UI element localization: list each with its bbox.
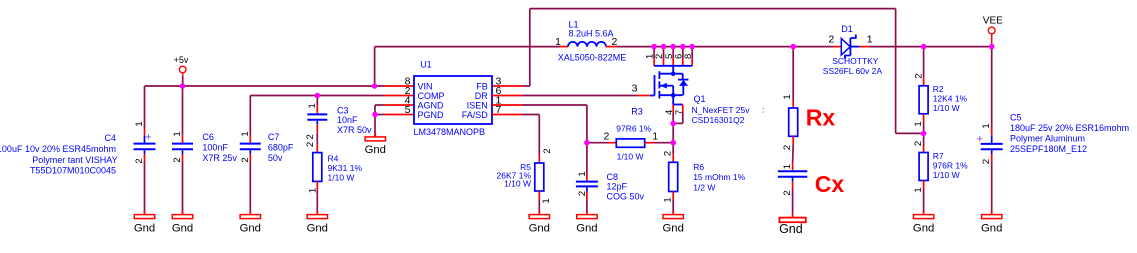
svg-text:2: 2 [913, 73, 924, 78]
svg-text:2: 2 [172, 157, 183, 162]
svg-text:Gnd: Gnd [240, 222, 261, 234]
svg-text:25SEPF180M_E12: 25SEPF180M_E12 [1010, 144, 1087, 154]
svg-text:C4: C4 [104, 133, 116, 143]
svg-text:C3: C3 [337, 106, 349, 116]
svg-text:1: 1 [541, 198, 552, 203]
inductor L1 [568, 42, 606, 47]
svg-text:1: 1 [134, 121, 145, 126]
wire R2 bottom [923, 114, 925, 122]
wire L1 pin2 stub [606, 46, 617, 48]
svg-text:100uF 10v 20% ESR45mohm: 100uF 10v 20% ESR45mohm [0, 144, 116, 154]
svg-text:SCHOTTKY: SCHOTTKY [832, 56, 879, 66]
resistor R4 [313, 153, 322, 182]
svg-text:Polymer Aluminum: Polymer Aluminum [1010, 134, 1085, 144]
ground R5 [538, 211, 540, 215]
svg-text:R3: R3 [631, 107, 643, 117]
ground R6 [672, 211, 674, 215]
svg-text:2: 2 [612, 36, 618, 48]
node Q1 drain junctions [651, 44, 657, 50]
wire main top net (switch node) [375, 46, 560, 48]
ground C6 [182, 211, 184, 215]
capacitor C6 [172, 143, 193, 145]
wire R7 top [923, 133, 925, 144]
svg-text:VIN: VIN [418, 82, 433, 92]
svg-text:100nF: 100nF [202, 143, 228, 153]
svg-text:1: 1 [555, 36, 561, 48]
svg-text:Q1: Q1 [694, 94, 706, 104]
wire C5 to gnd [991, 150, 993, 154]
svg-text:Gnd: Gnd [913, 222, 934, 234]
svg-text:1: 1 [307, 103, 318, 108]
svg-text:2: 2 [604, 130, 610, 142]
wire vertical main to VIN pin [374, 47, 376, 86]
svg-text:97R6 1%: 97R6 1% [616, 124, 651, 134]
wire D1 cathode stub [859, 46, 869, 48]
svg-text:D1: D1 [841, 24, 853, 34]
wire Rx drop [792, 47, 794, 100]
svg-text::: : [762, 105, 764, 115]
svg-text:R7: R7 [933, 151, 944, 161]
svg-text:Gnd: Gnd [981, 222, 1002, 234]
node Rx junction [790, 44, 796, 50]
svg-text:1: 1 [307, 188, 318, 193]
svg-text:DR: DR [475, 91, 488, 101]
svg-text:2: 2 [240, 157, 251, 162]
wire C3 to R4 [316, 121, 318, 125]
svg-text:2: 2 [305, 142, 316, 147]
wire feedback right riser [895, 9, 897, 134]
wire Q1 drain pin stubs [653, 47, 655, 58]
svg-text:2: 2 [577, 191, 588, 196]
node R2 top junction [921, 44, 927, 50]
svg-text:C7: C7 [268, 132, 280, 142]
svg-text:1: 1 [652, 130, 658, 142]
wire C8 drop [586, 143, 588, 174]
node PGND junction [372, 112, 378, 118]
resistor R2 [919, 86, 928, 114]
svg-text:3: 3 [632, 82, 638, 94]
wire C6 to gnd [182, 150, 184, 154]
wire C3 drop [316, 96, 318, 106]
wire R3 left [587, 142, 608, 144]
svg-text:1: 1 [577, 171, 588, 176]
wire PGND stub [375, 114, 385, 116]
svg-text:2: 2 [782, 190, 793, 195]
svg-text:180uF 25v 20% ESR16mohm: 180uF 25v 20% ESR16mohm [1010, 123, 1129, 133]
svg-text:1/10 W: 1/10 W [617, 151, 644, 161]
capacitor C7 [240, 143, 261, 145]
node R2/R7 feedback junction [921, 131, 927, 137]
svg-text:X7R 50v: X7R 50v [337, 125, 372, 135]
wire R6 bottom [672, 192, 674, 200]
wire R7 bottom [923, 181, 925, 189]
svg-text:U1: U1 [420, 60, 432, 70]
node C3 junction [315, 93, 321, 99]
svg-text:2: 2 [913, 141, 924, 146]
svg-text:1/10 W: 1/10 W [328, 173, 355, 183]
wire C8 to gnd [586, 187, 588, 192]
wire D1 anode stub [833, 46, 841, 48]
transistor Q1 N-channel MOSFET [654, 65, 692, 67]
wire ISEN net [492, 104, 522, 106]
ground C8 [586, 211, 588, 215]
wire +5v stem [182, 73, 184, 76]
svg-text:+: + [145, 132, 151, 144]
svg-text:1: 1 [172, 131, 183, 136]
svg-text:1/10 W: 1/10 W [933, 103, 960, 113]
wire C7 to gnd [249, 150, 251, 154]
node +5v junction [180, 83, 186, 89]
svg-text:XAL5050-822ME: XAL5050-822ME [558, 52, 627, 62]
svg-text:Gnd: Gnd [172, 222, 193, 234]
svg-text:T55D107M010C0045: T55D107M010C0045 [30, 165, 116, 175]
svg-text:8: 8 [683, 54, 694, 59]
svg-text:5: 5 [405, 104, 411, 116]
ground C5 [991, 211, 993, 215]
capacitor Cx [778, 170, 807, 172]
node VEE junction [989, 44, 995, 50]
svg-text:1: 1 [240, 131, 251, 136]
wire FA/SD to R5 [492, 114, 522, 116]
wire COMP rail y=95.5 [250, 95, 385, 97]
svg-text:1: 1 [782, 94, 793, 99]
wire Q1 source to R3/R6 [672, 123, 674, 142]
wire D1 to VEE [869, 46, 992, 48]
svg-text:1: 1 [662, 197, 673, 202]
svg-text:2: 2 [542, 148, 553, 153]
svg-text:7: 7 [674, 110, 685, 115]
svg-text:ISEN: ISEN [467, 101, 488, 111]
wire C5 drop [991, 47, 993, 128]
svg-text:8.2uH 5.6A: 8.2uH 5.6A [569, 29, 614, 39]
svg-text:15 mOhm 1%: 15 mOhm 1% [693, 172, 745, 182]
svg-text:1: 1 [913, 187, 924, 192]
svg-text:2: 2 [782, 145, 793, 150]
wire R4 to gnd [316, 181, 318, 189]
resistor R3 [616, 139, 644, 147]
wire L1 pin1 stub [560, 46, 568, 48]
wire C7 drop [249, 96, 251, 136]
node R3/R6 junction [670, 140, 676, 146]
node ISEN/R3/C8 junction [584, 140, 590, 146]
svg-text:2: 2 [981, 159, 992, 164]
svg-text:R6: R6 [693, 162, 704, 172]
svg-text:R2: R2 [933, 84, 944, 94]
svg-text:AGND: AGND [418, 101, 445, 111]
wire DR to gate [492, 95, 522, 97]
svg-text:N_NexFET 25v: N_NexFET 25v [692, 105, 751, 115]
svg-text:FB: FB [476, 82, 488, 92]
svg-text:9K31 1%: 9K31 1% [328, 163, 363, 173]
svg-text:PGND: PGND [418, 110, 445, 120]
capacitor C5 [981, 143, 1003, 145]
svg-text:2: 2 [305, 134, 316, 139]
svg-text:Cx: Cx [815, 171, 845, 197]
svg-text:Gnd: Gnd [365, 144, 386, 156]
wire VEE stem [991, 34, 993, 47]
wire R5 bottom [538, 191, 540, 199]
node Q1 source junction [670, 121, 676, 127]
svg-text:X7R 25v: X7R 25v [202, 153, 237, 163]
wire U1 gnd drop [374, 115, 376, 138]
svg-text:1: 1 [782, 164, 793, 169]
wire R6 top [672, 143, 674, 155]
op-amp U1 LM3478 box [414, 76, 492, 124]
capacitor C8 [576, 181, 598, 183]
ground Cx [792, 214, 794, 218]
svg-text:Gnd: Gnd [663, 222, 684, 234]
wire C4 to gnd [144, 150, 146, 154]
diode D1 schottky [841, 39, 850, 56]
wire FB riser [529, 9, 531, 86]
svg-text:COG 50v: COG 50v [607, 191, 645, 201]
svg-text:+: + [977, 133, 983, 145]
resistor R7 [919, 153, 928, 181]
svg-text:Gnd: Gnd [134, 222, 155, 234]
svg-text:C8: C8 [607, 172, 619, 182]
capacitor C3 [307, 113, 327, 115]
wire Q1 source pin stubs [672, 105, 674, 113]
ground R4 [316, 211, 318, 215]
svg-text:12pF: 12pF [607, 182, 628, 192]
svg-text:1: 1 [867, 34, 873, 46]
svg-text:1: 1 [913, 121, 924, 126]
svg-text:Gnd: Gnd [307, 222, 328, 234]
svg-text:50v: 50v [268, 153, 283, 163]
wire L1 to diode [617, 46, 833, 48]
ground R7 [923, 211, 925, 215]
svg-text:1/2 W: 1/2 W [693, 183, 715, 193]
svg-text:+5v: +5v [174, 55, 189, 65]
wire +5v rail (VIN rail y=86) [145, 85, 386, 87]
resistor R5 [535, 163, 544, 191]
svg-text:LM3478MANOPB: LM3478MANOPB [414, 127, 486, 137]
wire Cx to gnd [792, 178, 794, 182]
svg-text:1: 1 [981, 123, 992, 128]
svg-text:Polymer tant VISHAY: Polymer tant VISHAY [32, 155, 117, 165]
ground C4 [144, 211, 146, 215]
ground U1 [374, 133, 376, 137]
capacitor C4 [134, 143, 156, 145]
wire VIN red pin stub [385, 85, 414, 87]
wire Rx to Cx [792, 136, 794, 144]
svg-text:2: 2 [828, 34, 834, 46]
wire vertical C4 drop [144, 86, 146, 128]
wire top feedback net [530, 8, 896, 10]
svg-text:Rx: Rx [806, 104, 836, 130]
svg-text:1/10 W: 1/10 W [933, 170, 960, 180]
svg-text:2: 2 [662, 151, 673, 156]
svg-text:10nF: 10nF [337, 115, 358, 125]
svg-text:Gnd: Gnd [529, 222, 550, 234]
svg-text:FA/SD: FA/SD [462, 110, 489, 120]
svg-text:976R 1%: 976R 1% [933, 160, 968, 170]
svg-text:CSD16301Q2: CSD16301Q2 [692, 115, 745, 125]
wire R2 top [923, 47, 925, 78]
wire AGND jog [375, 104, 385, 106]
svg-text:R4: R4 [328, 154, 339, 164]
wire R3 right [645, 142, 655, 144]
svg-text:C6: C6 [202, 132, 214, 142]
svg-text:12K4 1%: 12K4 1% [933, 93, 968, 103]
resistor Rx [789, 108, 798, 136]
svg-text:C5: C5 [1010, 113, 1022, 123]
svg-text:Gnd: Gnd [779, 222, 803, 236]
svg-text:1/10 W: 1/10 W [504, 179, 531, 189]
svg-text:680pF: 680pF [268, 143, 294, 153]
resistor R6 [669, 162, 678, 191]
svg-text:SS26FL 60v 2A: SS26FL 60v 2A [823, 66, 883, 76]
svg-text:2: 2 [134, 158, 145, 163]
node VIN-rail junction [372, 83, 378, 89]
svg-text:Gnd: Gnd [576, 222, 597, 234]
svg-text:COMP: COMP [418, 91, 445, 101]
svg-text:VEE: VEE [983, 16, 1003, 27]
ground C7 [249, 211, 251, 215]
